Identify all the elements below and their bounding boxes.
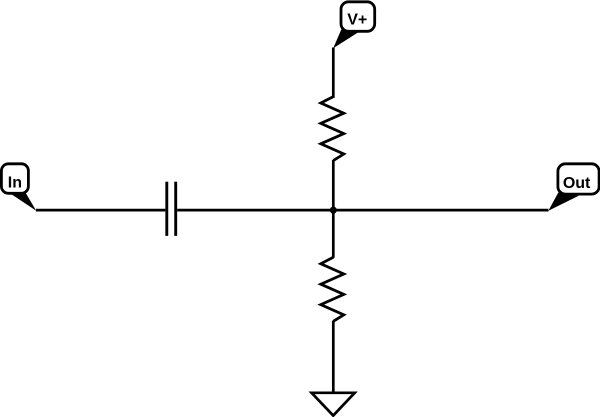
wire R1 to node bbox=[332, 160, 335, 211]
node junction dot bbox=[330, 207, 337, 214]
ground bbox=[312, 393, 355, 416]
wire V+ to R1 bbox=[332, 48, 335, 99]
wire node to R2 bbox=[332, 210, 335, 258]
svg-text:In: In bbox=[8, 174, 22, 191]
wire C1 to Out bbox=[177, 209, 548, 212]
svg-text:Out: Out bbox=[563, 175, 591, 192]
resistor R1 bbox=[321, 97, 344, 161]
wire In to C1 bbox=[36, 209, 165, 212]
wire R2 to ground bbox=[332, 321, 335, 393]
resistor R2 bbox=[321, 257, 344, 321]
net label Out bbox=[548, 164, 599, 211]
svg-text:V+: V+ bbox=[347, 12, 367, 29]
net label V+ bbox=[333, 2, 375, 49]
capacitor C1 bbox=[167, 182, 176, 236]
net label In bbox=[1, 164, 36, 211]
